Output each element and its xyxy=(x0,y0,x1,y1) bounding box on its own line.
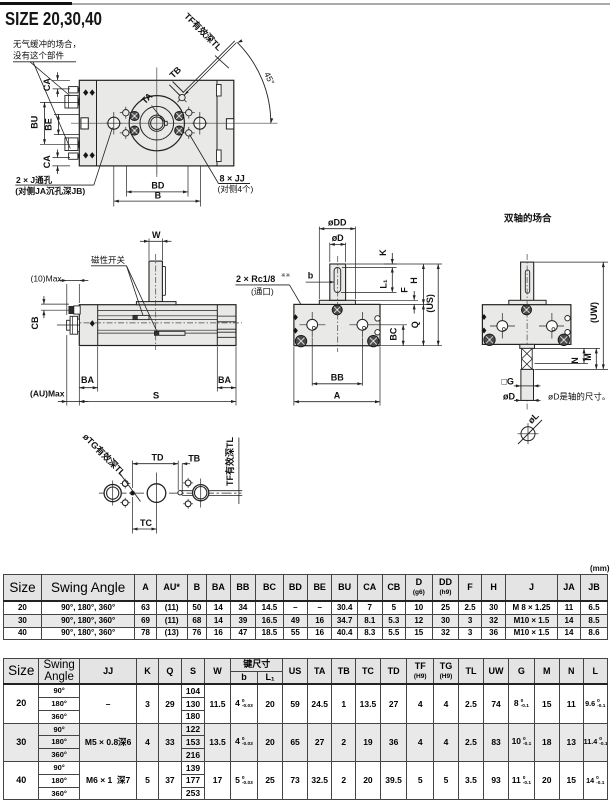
front view: body xyxy=(294,304,380,345)
dual: round shaft end xyxy=(521,369,534,400)
svg-text:BA: BA xyxy=(218,375,231,385)
side view: middle valve xyxy=(67,320,71,330)
front view: top bolt xyxy=(332,305,342,315)
dim A xyxy=(293,347,295,406)
front view: ports xyxy=(300,324,326,326)
dim L1 xyxy=(341,291,397,293)
dim TC xyxy=(132,497,134,534)
dim CB xyxy=(43,296,45,304)
svg-text:øD: øD xyxy=(503,391,515,401)
front view: edge marks xyxy=(293,314,298,320)
bottom view: oTG hole + label xyxy=(131,491,135,495)
dual: square section with cross hatch xyxy=(522,348,533,369)
TB dim tick on leader xyxy=(215,56,229,69)
dim N xyxy=(535,362,589,364)
svg-text:2 × Rc1/8: 2 × Rc1/8 xyxy=(236,274,275,284)
side view: body xyxy=(79,305,236,346)
dim S xyxy=(78,347,80,406)
dim BU xyxy=(40,101,79,103)
svg-text:BD: BD xyxy=(151,181,164,191)
svg-text:TF有效深TL: TF有效深TL xyxy=(182,10,225,53)
dim CA top xyxy=(53,79,71,81)
dual: ports xyxy=(490,325,515,327)
bottom view: left small holes xyxy=(120,483,130,485)
side view: top-left valve xyxy=(69,306,74,313)
dim W xyxy=(148,239,150,261)
svg-text:øD: øD xyxy=(332,233,344,243)
oL section circle xyxy=(521,427,535,441)
svg-text:TB: TB xyxy=(168,64,184,80)
svg-text:8 × JJ: 8 × JJ xyxy=(220,174,245,184)
side view: centerline xyxy=(72,322,242,324)
svg-text:S: S xyxy=(153,391,159,402)
bottom view: center circle xyxy=(147,484,166,503)
dim K xyxy=(384,263,397,265)
dual: body xyxy=(482,305,571,345)
top view: TF positioning hole at 45deg xyxy=(178,93,187,102)
svg-text:N: N xyxy=(570,357,580,364)
front view: centerline xyxy=(337,256,339,352)
dim TD xyxy=(132,461,134,489)
svg-text:TC: TC xyxy=(140,518,152,528)
bottom view: right port circles xyxy=(193,485,209,501)
svg-text:45°: 45° xyxy=(262,70,276,86)
svg-text:(通口): (通口) xyxy=(251,287,274,297)
top view: 4 hatched flange bolts xyxy=(130,111,139,120)
svg-text:b: b xyxy=(308,271,314,281)
top view: actuator body xyxy=(79,80,234,166)
dim M xyxy=(535,347,601,349)
front view: corner bolts xyxy=(295,335,306,346)
dim UW xyxy=(535,261,609,263)
callout 8xJJ xyxy=(190,135,219,184)
svg-text:TF有效深TL: TF有效深TL xyxy=(224,437,235,486)
bottom view: TF hole xyxy=(178,491,182,495)
top view: 8xJJ tapped holes xyxy=(120,112,132,114)
dim BB xyxy=(311,338,313,386)
top view: centerlines xyxy=(71,122,278,124)
callout 2xJ holes xyxy=(94,128,113,186)
top view: notches xyxy=(81,118,88,129)
dual: upper shaft xyxy=(521,262,534,302)
dim oDD xyxy=(318,227,320,300)
TF leader xyxy=(182,490,243,492)
dual: bolts xyxy=(484,334,495,345)
dim F xyxy=(355,299,418,301)
svg-text:※※: ※※ xyxy=(281,272,291,279)
dims B and BD xyxy=(113,166,115,207)
side view: switches xyxy=(133,315,149,319)
svg-text:(对侧4个): (对侧4个) xyxy=(218,184,254,194)
svg-text:(10)Max.: (10)Max. xyxy=(31,274,65,284)
dim CA bottom xyxy=(53,157,71,159)
top view: 2xJ through holes xyxy=(108,117,120,129)
svg-text:2 × J通孔: 2 × J通孔 xyxy=(16,175,53,185)
dim oD lower xyxy=(521,399,534,401)
svg-text:TD: TD xyxy=(152,453,164,463)
svg-text:Q: Q xyxy=(410,321,420,328)
svg-text:BB: BB xyxy=(331,372,344,382)
svg-text:没有这个部件: 没有这个部件 xyxy=(13,51,65,61)
svg-text:(AU)Max: (AU)Max xyxy=(30,389,65,399)
svg-text:BC: BC xyxy=(389,327,399,340)
front view: shaft xyxy=(330,264,346,300)
svg-text:H: H xyxy=(409,277,419,284)
top view: cushion valve bottom xyxy=(65,138,78,151)
svg-text:□G: □G xyxy=(502,377,514,387)
bottom view: centerline xyxy=(99,492,242,494)
dim US xyxy=(380,345,442,347)
svg-text:F: F xyxy=(400,287,410,293)
svg-text:BA: BA xyxy=(81,375,94,385)
dim square G xyxy=(521,385,534,387)
bottom view: right small holes xyxy=(183,482,193,484)
dual: centerline xyxy=(526,254,528,410)
svg-text:BU: BU xyxy=(29,116,39,129)
svg-text:CA: CA xyxy=(42,155,52,168)
svg-text:L₁: L₁ xyxy=(379,279,389,288)
svg-text:双轴的场合: 双轴的场合 xyxy=(503,213,552,225)
side view: internal lines xyxy=(98,309,218,311)
dim BE xyxy=(54,113,79,115)
svg-text:(UW): (UW) xyxy=(589,302,599,323)
svg-text:BE: BE xyxy=(43,118,53,131)
dim BC xyxy=(376,324,408,326)
svg-text:K: K xyxy=(378,249,388,256)
svg-text:øTG有效深TL: øTG有效深TL xyxy=(81,431,129,479)
top view: rotary flange circles xyxy=(129,96,184,151)
dim H xyxy=(347,263,443,265)
svg-text:W: W xyxy=(152,230,161,240)
top view: end cap lines xyxy=(96,80,98,166)
svg-text:(US): (US) xyxy=(425,294,435,313)
dim TB xyxy=(181,464,183,496)
svg-text:CB: CB xyxy=(30,316,40,329)
front view: key slot xyxy=(334,268,341,293)
svg-text:(对侧JA沉孔深JB): (对侧JA沉孔深JB) xyxy=(15,186,85,196)
top view: diamond marks xyxy=(83,89,88,95)
svg-text:TB: TB xyxy=(188,453,200,463)
dims BA xyxy=(97,347,99,392)
bottom view: left port circles xyxy=(104,485,121,502)
svg-text:A: A xyxy=(334,391,341,401)
svg-text:无气缓冲的场合，: 无气缓冲的场合， xyxy=(13,39,81,49)
dual: lower shaft collar xyxy=(520,344,535,348)
svg-text:øD是轴的尺寸。: øD是轴的尺寸。 xyxy=(548,391,610,401)
front view: flange xyxy=(319,300,355,304)
dim oD xyxy=(329,243,331,263)
top view: cushion valve top xyxy=(69,87,78,93)
svg-text:øDD: øDD xyxy=(328,217,347,227)
top view: center shaft hole with keyway xyxy=(149,115,165,131)
svg-text:磁性开关: 磁性开关 xyxy=(91,255,126,265)
svg-text:B: B xyxy=(155,190,162,200)
side view: shaft xyxy=(149,261,162,302)
45deg arc xyxy=(237,43,270,124)
dim Q xyxy=(422,304,424,345)
